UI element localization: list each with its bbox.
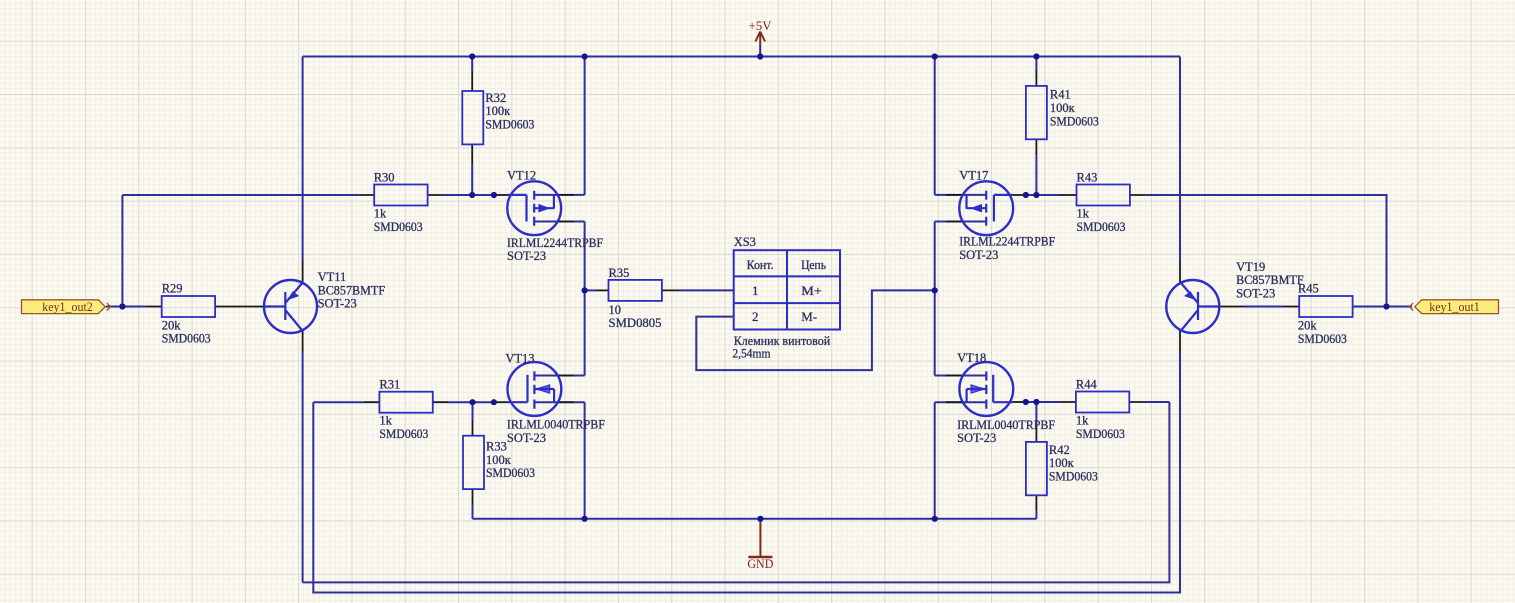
- svg-text:IRLML2244TRPBF: IRLML2244TRPBF: [959, 235, 1055, 249]
- svg-text:SMD0805: SMD0805: [609, 316, 662, 330]
- svg-text:VT11: VT11: [318, 270, 347, 284]
- svg-text:SMD0603: SMD0603: [1077, 220, 1126, 234]
- svg-text:BC857BMTF: BC857BMTF: [318, 283, 386, 297]
- svg-text:R42: R42: [1049, 443, 1070, 457]
- svg-text:Конт.: Конт.: [747, 257, 774, 272]
- svg-text:IRLML0040TRPBF: IRLML0040TRPBF: [957, 418, 1055, 432]
- svg-text:SMD0603: SMD0603: [1050, 114, 1099, 128]
- svg-text:SMD0603: SMD0603: [1298, 332, 1347, 346]
- svg-text:R30: R30: [374, 171, 395, 185]
- svg-text:SOT-23: SOT-23: [507, 431, 546, 445]
- svg-text:2,54mm: 2,54mm: [732, 347, 770, 361]
- svg-text:100к: 100к: [1050, 101, 1076, 115]
- svg-text:key1_out2: key1_out2: [42, 300, 93, 314]
- svg-text:VT18: VT18: [957, 351, 986, 365]
- svg-text:10: 10: [609, 303, 622, 317]
- svg-text:VT19: VT19: [1236, 260, 1265, 274]
- svg-text:R44: R44: [1076, 378, 1098, 392]
- svg-text:100к: 100к: [1049, 456, 1075, 470]
- svg-text:key1_out1: key1_out1: [1429, 300, 1480, 314]
- svg-text:SMD0603: SMD0603: [486, 466, 535, 480]
- svg-text:1: 1: [752, 283, 759, 298]
- svg-text:R41: R41: [1050, 88, 1071, 102]
- svg-text:SOT-23: SOT-23: [1236, 287, 1275, 301]
- svg-text:100к: 100к: [486, 453, 512, 467]
- svg-text:SOT-23: SOT-23: [957, 431, 996, 445]
- svg-text:SOT-23: SOT-23: [507, 249, 546, 263]
- svg-text:SMD0603: SMD0603: [162, 331, 211, 345]
- svg-text:VT13: VT13: [505, 351, 534, 365]
- svg-text:100к: 100к: [485, 104, 511, 118]
- svg-text:SMD0603: SMD0603: [1076, 427, 1125, 441]
- svg-text:R43: R43: [1077, 171, 1098, 185]
- svg-text:VT17: VT17: [959, 168, 988, 182]
- svg-text:R32: R32: [485, 91, 506, 105]
- svg-text:IRLML0040TRPBF: IRLML0040TRPBF: [507, 418, 605, 432]
- svg-text:2: 2: [752, 309, 759, 324]
- svg-text:20k: 20k: [1298, 319, 1318, 333]
- svg-text:Цепь: Цепь: [801, 257, 826, 272]
- svg-text:1k: 1k: [1076, 414, 1089, 428]
- svg-text:+5V: +5V: [749, 18, 773, 33]
- svg-text:SOT-23: SOT-23: [318, 297, 357, 311]
- svg-text:1k: 1k: [374, 207, 387, 221]
- svg-text:R29: R29: [162, 282, 183, 296]
- svg-text:R31: R31: [379, 378, 400, 392]
- svg-text:M+: M+: [801, 283, 822, 298]
- svg-text:BC857BMTF: BC857BMTF: [1236, 273, 1304, 287]
- svg-text:SMD0603: SMD0603: [374, 220, 423, 234]
- svg-text:SMD0603: SMD0603: [485, 117, 534, 131]
- svg-text:XS3: XS3: [734, 235, 756, 249]
- svg-text:1k: 1k: [379, 414, 392, 428]
- svg-text:VT12: VT12: [507, 168, 536, 182]
- svg-text:GND: GND: [747, 557, 773, 571]
- svg-text:R35: R35: [609, 266, 630, 280]
- svg-text:1k: 1k: [1077, 207, 1090, 221]
- svg-text:IRLML2244TRPBF: IRLML2244TRPBF: [507, 236, 603, 250]
- svg-text:SMD0603: SMD0603: [1049, 469, 1098, 483]
- svg-text:R33: R33: [486, 440, 507, 454]
- svg-text:M-: M-: [801, 309, 817, 324]
- svg-text:SOT-23: SOT-23: [959, 248, 998, 262]
- svg-text:SMD0603: SMD0603: [379, 427, 428, 441]
